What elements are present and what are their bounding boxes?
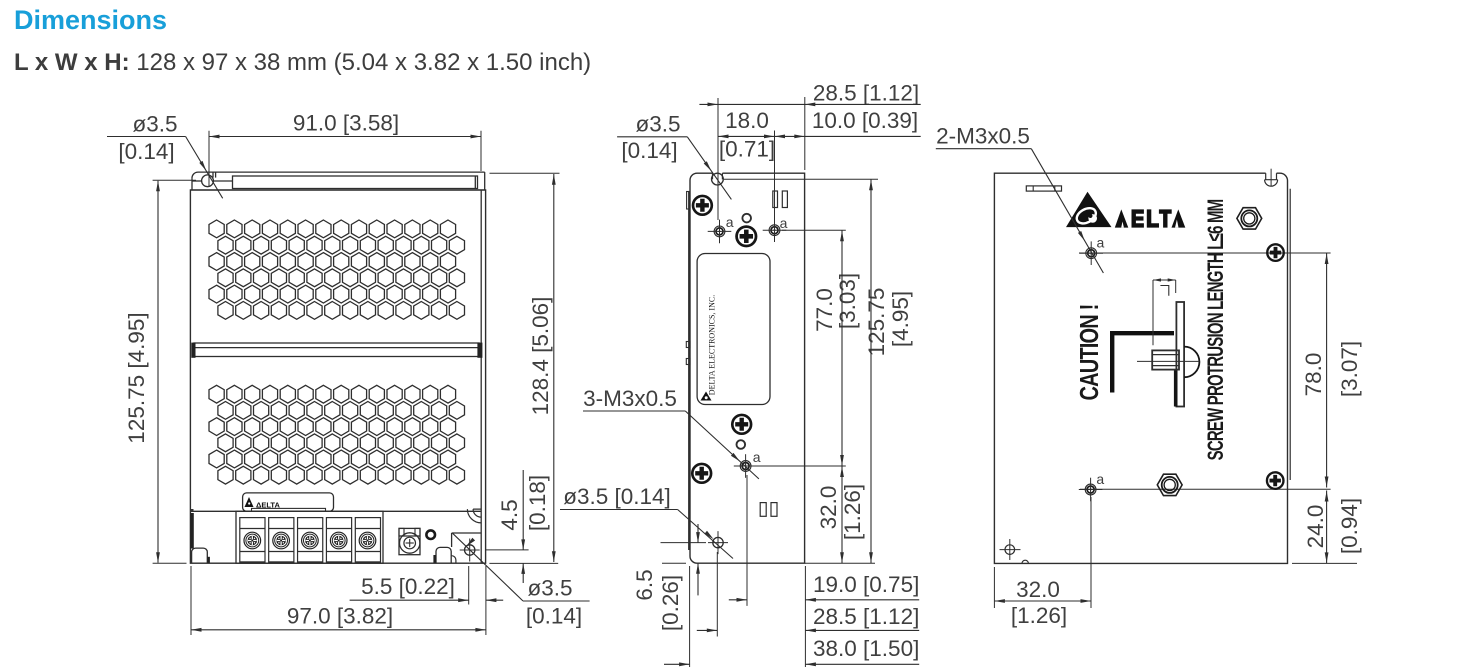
- svg-text:a: a: [780, 215, 788, 231]
- svg-text:ø3.5: ø3.5: [527, 576, 572, 601]
- middle view: top vent slots: [773, 191, 778, 208]
- middle view: left edge tabs: [686, 342, 690, 348]
- right view: top-right phillips screw: [1267, 244, 1284, 261]
- svg-text:a: a: [1097, 235, 1105, 251]
- middle view: flange inner line: [724, 178, 878, 180]
- svg-text:a: a: [726, 214, 734, 230]
- label diameter 3.5 [0.14] top of middle view: [617, 112, 731, 200]
- right view: bottom edge small notch: [1022, 560, 1028, 563]
- svg-text:128.4 [5.06]: 128.4 [5.06]: [528, 297, 553, 416]
- middle view: product label sticker: [697, 254, 770, 405]
- left view: top flange outline: [190, 172, 485, 190]
- middle view: left edge top tab: [687, 192, 690, 210]
- left view: terminal cells with screws: [240, 518, 265, 562]
- dimension 128.4 [5.06] right side: [490, 173, 560, 562]
- right view: tapped hole a (top): [1079, 241, 1103, 265]
- left view: potentiometer: [399, 528, 420, 554]
- left view: hexagonal vent grid upper: [209, 220, 465, 319]
- left view: hexagonal vent grid lower: [209, 385, 465, 484]
- svg-text:19.0 [0.75]: 19.0 [0.75]: [813, 572, 919, 597]
- svg-text:77.0: 77.0: [812, 288, 837, 332]
- left view: left foot: [192, 548, 210, 563]
- dimension 4.5 [0.18]: [485, 470, 558, 583]
- dimension 32.0 [1.26] middle view side: [753, 466, 866, 563]
- svg-text:2-M3x0.5: 2-M3x0.5: [936, 124, 1030, 149]
- right view: screw protrusion detail - chassis wall L bracket: [1112, 333, 1174, 392]
- middle view: center phillips screw bottom: [732, 415, 751, 434]
- middle view: bottom vent slots: [760, 503, 766, 517]
- left view: bottom-right mounting hole: [460, 539, 480, 562]
- svg-text:[0.26]: [0.26]: [658, 575, 683, 631]
- dimension 28.5 [1.12] top: [699, 81, 920, 221]
- right view: screw protrusion detail - screw head: [1152, 350, 1179, 369]
- svg-text:DELTA ELECTRONICS, INC.: DELTA ELECTRONICS, INC.: [708, 295, 717, 395]
- right view: bottom hex nut: [1157, 474, 1182, 495]
- dimension 32.0 [1.26] right view bottom: [994, 497, 1091, 628]
- svg-text:4.5: 4.5: [497, 499, 522, 530]
- svg-text:91.0 [3.58]: 91.0 [3.58]: [293, 111, 399, 136]
- svg-text:24.0: 24.0: [1303, 505, 1328, 549]
- middle view: body outline: [689, 173, 804, 563]
- svg-text:[0.14]: [0.14]: [118, 139, 174, 164]
- left view: delta logo name plate: [243, 493, 334, 511]
- left view: front panel top line: [190, 510, 481, 512]
- svg-text:ø3.5 [0.14]: ø3.5 [0.14]: [563, 484, 671, 509]
- svg-text:[0.14]: [0.14]: [526, 604, 582, 629]
- right view: delta logo triangle: [1066, 192, 1112, 227]
- svg-text:97.0 [3.82]: 97.0 [3.82]: [287, 604, 393, 629]
- svg-text:[0.18]: [0.18]: [525, 475, 550, 531]
- right view: top hex nut: [1237, 208, 1262, 229]
- middle view: small hole above center screw: [742, 214, 751, 223]
- svg-text:[1.26]: [1.26]: [1011, 603, 1067, 628]
- svg-text:5.5 [0.22]: 5.5 [0.22]: [361, 574, 455, 599]
- left view: terminal block outline: [236, 511, 383, 563]
- right view: screw protrusion detail - dome tip: [1184, 347, 1199, 378]
- label diameter 3.5 [0.14] top-left of left view: [107, 112, 223, 199]
- left view: middle divider bar: [191, 343, 482, 358]
- left view: top lip plate: [233, 176, 478, 189]
- dimension 10.0 [0.39]: [775, 108, 921, 138]
- right view: bottom screws row line: [1080, 488, 1331, 490]
- middle view: bottom-left mounting hole: [708, 531, 728, 554]
- middle view: bottom-left phillips screw: [692, 464, 711, 483]
- right view: body outline: [994, 173, 1290, 563]
- dimension 91.0 [3.58] top: [209, 111, 481, 187]
- left view: mounting hole top-left circle: [202, 175, 214, 187]
- left view: right foot: [433, 547, 451, 563]
- right view: top screws row line: [1079, 252, 1331, 254]
- dimension 6.5 [0.26]: [632, 524, 706, 631]
- svg-text:125.75 [4.95]: 125.75 [4.95]: [124, 312, 149, 443]
- right view: bottom tapped hole a: [1079, 478, 1103, 502]
- svg-text:18.0: 18.0: [725, 108, 769, 133]
- dimension 18.0 [0.71]: [718, 108, 775, 219]
- right view: top screw notch: [1265, 169, 1278, 187]
- dimension 77.0 [3.03]: [782, 230, 860, 466]
- right view: screw protrusion detail - panel plate: [1176, 302, 1184, 407]
- middle view: top-left phillips screw: [693, 196, 712, 215]
- svg-text:[3.03]: [3.03]: [835, 273, 860, 329]
- left view: main body outline: [190, 190, 485, 563]
- svg-text:38.0 [1.50]: 38.0 [1.50]: [813, 636, 919, 661]
- svg-text:28.5 [1.12]: 28.5 [1.12]: [813, 81, 919, 106]
- svg-text:a: a: [1096, 471, 1104, 487]
- svg-text:6.5: 6.5: [632, 569, 657, 600]
- dimension 78.0 [3.07]: [1301, 253, 1362, 488]
- svg-text:[1.26]: [1.26]: [840, 484, 865, 540]
- middle view: tapped hole a (bottom): [734, 454, 758, 478]
- svg-text:[4.95]: [4.95]: [888, 291, 913, 347]
- dimension 28.5 [1.12] bottom: [697, 552, 920, 637]
- svg-text:32.0: 32.0: [1016, 577, 1060, 602]
- svg-text:[0.71]: [0.71]: [719, 137, 775, 162]
- left view: indicator hole small circle: [426, 530, 435, 539]
- middle view: tapped hole a (top-left): [708, 220, 732, 244]
- svg-text:SCREW PROTRUSION LENGTH L≤6 M: SCREW PROTRUSION LENGTH L≤6 MM: [1204, 200, 1229, 461]
- dimension 97.0 [3.82] bottom: [191, 566, 486, 635]
- middle view: small hole below: [737, 440, 746, 449]
- right view: bottom-left small hole: [1000, 539, 1021, 560]
- svg-text:3-M3x0.5: 3-M3x0.5: [583, 386, 677, 411]
- svg-text:32.0: 32.0: [816, 486, 841, 530]
- right view: screw protrusion detail - L dimension: [1153, 278, 1176, 345]
- right view: top vent slot: [1026, 186, 1061, 191]
- label 2-M3x0.5: [936, 124, 1104, 274]
- middle view: center phillips screw top: [737, 227, 756, 246]
- left view: side-wall corner arcs: [467, 509, 481, 523]
- svg-text:ø3.5: ø3.5: [635, 112, 680, 137]
- dimension 38.0 [1.50]: [664, 566, 919, 667]
- label diameter 3.5 [0.14] left of middle view: [560, 484, 733, 559]
- svg-text:28.5 [1.12]: 28.5 [1.12]: [813, 604, 919, 629]
- right view: screw protrusion detail - centerline: [1137, 360, 1199, 362]
- left view: left edge thick bar: [190, 509, 193, 511]
- label 3-M3x0.5: [583, 386, 759, 479]
- dimension 125.75 [4.95] middle view: [805, 179, 913, 563]
- right view: bottom-right phillips screw: [1267, 472, 1284, 489]
- middle view: top mounting hole circle: [712, 173, 724, 185]
- middle view: tapped hole a (top-right): [763, 218, 787, 242]
- right view: delta logo wordmark DELTA: [1115, 209, 1186, 227]
- left view: bottom-right corner bracket: [452, 533, 482, 563]
- svg-text:[0.94]: [0.94]: [1337, 498, 1362, 554]
- svg-text:[3.07]: [3.07]: [1337, 341, 1362, 397]
- svg-text:[0.14]: [0.14]: [621, 138, 677, 163]
- svg-text:a: a: [753, 449, 761, 465]
- dimension 5.5 [0.22]: [350, 566, 504, 635]
- dimension 24.0 [0.94]: [1292, 491, 1362, 564]
- svg-text:125.75: 125.75: [864, 288, 889, 357]
- svg-text:10.0 [0.39]: 10.0 [0.39]: [812, 108, 918, 133]
- svg-text:78.0: 78.0: [1301, 353, 1326, 397]
- svg-text:CAUTION !: CAUTION !: [1074, 304, 1103, 400]
- label diameter 3.5 [0.14] bottom-right of left view: [453, 533, 590, 628]
- dimension 125.75 [4.95] left side: [124, 180, 196, 563]
- dimension 19.0 [0.75]: [729, 475, 920, 606]
- svg-text:ø3.5: ø3.5: [132, 112, 177, 137]
